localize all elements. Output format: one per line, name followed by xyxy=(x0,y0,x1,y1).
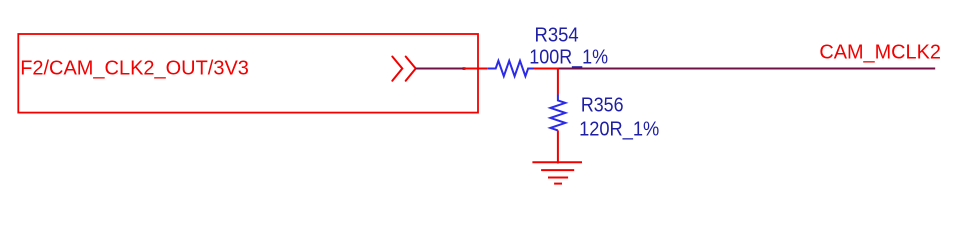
wire: node A to R354 pin 1 (red) xyxy=(463,68,487,70)
resistor R356 xyxy=(550,95,565,131)
wire: R354 pin 2 to junction (red) xyxy=(534,68,559,70)
junction dot node A xyxy=(463,67,466,70)
off-page connector chevron xyxy=(392,57,415,81)
wire: chevron to node A xyxy=(416,68,464,70)
ground xyxy=(532,162,582,183)
svg-text:100R_1%: 100R_1% xyxy=(529,46,608,68)
off-page connector box F2/CAM_CLK2_OUT/3V3 xyxy=(18,34,478,113)
wire: junction to CAM_MCLK2 xyxy=(559,68,936,70)
resistor R354 xyxy=(488,61,534,76)
svg-text:120R_1%: 120R_1% xyxy=(579,118,659,140)
svg-text:F2/CAM_CLK2_OUT/3V3: F2/CAM_CLK2_OUT/3V3 xyxy=(20,58,249,80)
svg-text:CAM_MCLK2: CAM_MCLK2 xyxy=(819,42,941,64)
wire: R356 pin 2 to ground (red) xyxy=(557,130,559,163)
wire: junction down to R356 pin 1 (red) xyxy=(557,69,559,95)
svg-text:R356: R356 xyxy=(581,95,624,117)
svg-text:R354: R354 xyxy=(535,25,579,47)
